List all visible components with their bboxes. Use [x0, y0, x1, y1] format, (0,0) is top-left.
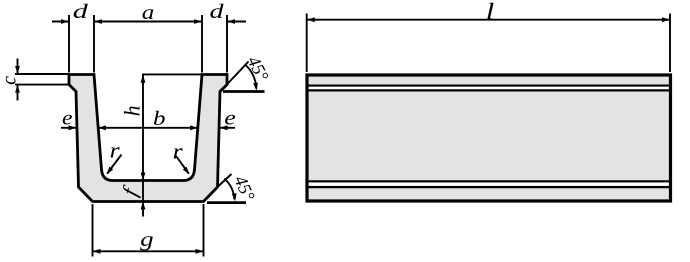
- radius r leader left: [107, 155, 121, 174]
- dimension d left line: [52, 21, 69, 23]
- svg-text:l: l: [486, 0, 495, 24]
- 45 deg top-right: chamfer extension line: [222, 62, 249, 90]
- side view lower white gap: [306, 183, 672, 186]
- svg-text:e: e: [62, 107, 73, 129]
- dimension b line: [98, 127, 198, 129]
- svg-text:d: d: [73, 1, 90, 23]
- svg-text:45°: 45°: [243, 53, 272, 85]
- dimension c extension lines: [15, 73, 68, 75]
- dimension a line: [94, 21, 202, 23]
- svg-text:g: g: [140, 227, 154, 251]
- 45 deg top-right: angle arc: [245, 65, 256, 89]
- dimension g extension lines: [92, 204, 94, 257]
- dimension l line: [307, 19, 670, 21]
- dimension c line with arrows: [17, 59, 19, 75]
- svg-text:c: c: [0, 76, 20, 85]
- side view lower edge line 2: [306, 186, 672, 188]
- dimension d right line: [227, 21, 246, 23]
- dimension e left line: [61, 127, 77, 129]
- dimension h extension line: [142, 73, 202, 75]
- 45 deg bottom-right: chamfer extension line: [219, 174, 232, 186]
- svg-text:a: a: [142, 2, 155, 24]
- svg-text:h: h: [120, 105, 145, 116]
- svg-text:b: b: [153, 108, 166, 130]
- dimension h and f vertical line: [142, 75, 144, 217]
- side view outline: [307, 75, 671, 201]
- side view upper white gap: [306, 87, 672, 90]
- side view upper edge line 1: [306, 84, 672, 86]
- channel cross-section profile: [69, 75, 227, 202]
- dimension e right line: [220, 127, 236, 129]
- svg-text:r: r: [110, 137, 121, 162]
- svg-text:r: r: [173, 138, 184, 163]
- svg-text:d: d: [210, 1, 225, 23]
- dimension g line: [93, 250, 204, 252]
- side view body fill: [307, 75, 671, 201]
- extension lines for a and d: [69, 15, 227, 73]
- side view upper edge line 2: [306, 89, 672, 91]
- side view lower edge line 1: [306, 180, 672, 182]
- 45 deg top-right: horizontal reference line: [223, 90, 265, 93]
- svg-text:e: e: [224, 107, 236, 129]
- dimension l extension lines: [306, 14, 308, 73]
- 45 deg bottom-right: angle arc: [224, 179, 234, 200]
- radius r leader right: [176, 156, 189, 174]
- 45 deg bottom-right: horizontal reference line: [207, 201, 246, 204]
